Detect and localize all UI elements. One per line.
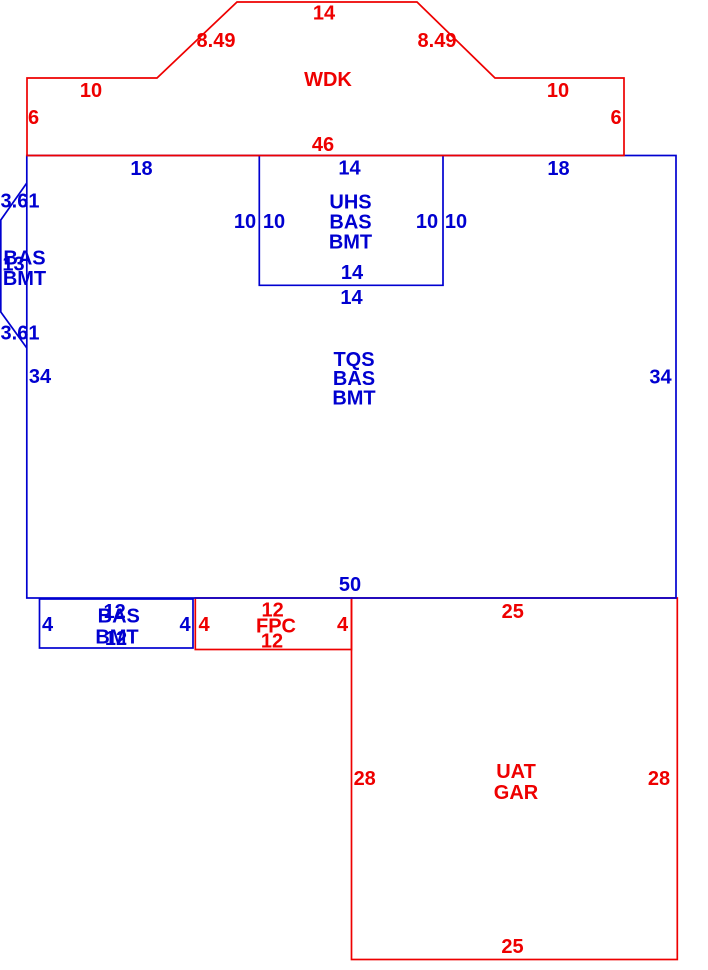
svg-text:BMT: BMT [332,388,375,410]
svg-text:BAS: BAS [329,212,371,234]
svg-text:4: 4 [198,614,210,636]
svg-text:BAS: BAS [98,605,140,627]
svg-text:BMT: BMT [95,627,138,649]
svg-text:8.49: 8.49 [197,30,236,52]
svg-text:28: 28 [648,768,670,790]
svg-text:34: 34 [649,367,672,389]
svg-text:6: 6 [28,107,39,129]
svg-text:4: 4 [42,614,54,636]
svg-text:8.49: 8.49 [418,30,457,52]
svg-text:25: 25 [501,936,523,958]
svg-text:10: 10 [80,80,102,102]
svg-text:BMT: BMT [3,268,46,290]
svg-text:BAS: BAS [3,248,45,270]
svg-text:18: 18 [130,158,152,180]
svg-text:14: 14 [340,287,363,309]
svg-text:34: 34 [29,366,52,388]
svg-text:12: 12 [261,630,283,652]
svg-text:UAT: UAT [496,761,536,783]
svg-text:4: 4 [179,614,191,636]
svg-text:10: 10 [234,211,256,233]
svg-text:3.61: 3.61 [1,323,40,345]
svg-text:6: 6 [610,107,621,129]
svg-text:28: 28 [354,768,376,790]
svg-text:10: 10 [416,211,438,233]
svg-text:10: 10 [263,211,285,233]
svg-text:14: 14 [341,262,364,284]
svg-text:10: 10 [445,211,467,233]
svg-text:18: 18 [547,158,569,180]
svg-text:4: 4 [337,614,349,636]
svg-text:46: 46 [312,134,334,156]
svg-text:10: 10 [547,80,569,102]
svg-text:3.61: 3.61 [1,191,40,213]
svg-text:GAR: GAR [494,782,539,804]
svg-text:UHS: UHS [329,192,371,214]
svg-text:50: 50 [339,574,361,596]
svg-text:BMT: BMT [329,232,372,254]
svg-text:WDK: WDK [304,69,352,91]
svg-text:14: 14 [313,3,336,25]
svg-text:25: 25 [502,601,524,623]
svg-text:14: 14 [338,158,361,180]
